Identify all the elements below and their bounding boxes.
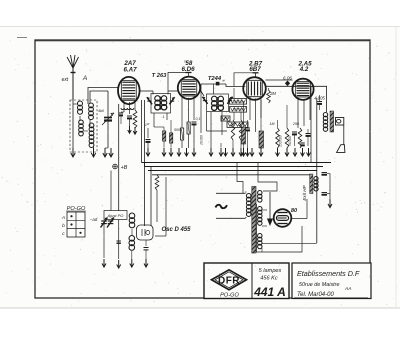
svg-text:b: b	[62, 223, 65, 229]
wire coil links	[79, 116, 81, 121]
svg-text:50rue de Maistre: 50rue de Maistre	[299, 282, 339, 288]
wire bottom secondary	[262, 242, 317, 244]
wire aux into ajust	[110, 171, 112, 211]
wire B+ vertical rail	[118, 104, 120, 211]
resistor box R14	[242, 127, 246, 144]
capacitor C5 under U2	[192, 121, 197, 123]
band switch PO-GO table	[67, 212, 85, 237]
trimmer T1 osc	[101, 220, 107, 222]
filament loops under U1	[121, 108, 134, 110]
wire bus L1	[142, 162, 332, 164]
svg-text:6B7: 6B7	[249, 66, 261, 73]
ground C10	[145, 259, 147, 266]
ground trimmer T1	[103, 259, 105, 266]
wire right rail	[316, 98, 318, 243]
capacitor C13 blob	[216, 82, 220, 86]
resistor R5 box 50000	[230, 107, 247, 113]
resistor R9 diagonal 2M	[267, 90, 271, 103]
antenna coil L1b	[79, 120, 84, 125]
wire primary feed	[237, 163, 243, 194]
mains wires	[216, 192, 246, 194]
exit transformer core	[310, 174, 313, 194]
wire bus L2	[145, 166, 324, 168]
antenna	[72, 68, 74, 100]
input coil shield box (dashed)	[70, 100, 97, 152]
wire U2 plate to T244	[200, 90, 204, 96]
capacitor C2 under U1	[127, 115, 132, 117]
wire bus L3	[148, 170, 317, 172]
svg-text:3ᵂ: 3ᵂ	[223, 117, 228, 121]
svg-text:.1: .1	[162, 115, 165, 119]
resistor R8 vertical	[239, 120, 242, 140]
svg-text:250: 250	[292, 122, 299, 126]
resistor R12 box	[170, 133, 173, 143]
arrow return R1	[134, 127, 136, 133]
svg-text:T 263: T 263	[152, 73, 168, 79]
tube U4 2A5/42	[292, 79, 313, 100]
svg-text:Osc D 455: Osc D 455	[161, 227, 191, 233]
resistor R1 under U1	[133, 110, 137, 128]
svg-text:500: 500	[174, 128, 180, 132]
wire exit right	[327, 174, 330, 200]
svg-text:PO-GO: PO-GO	[220, 292, 239, 298]
svg-text:4b0: 4b0	[98, 109, 104, 113]
wire osc feedback	[155, 235, 166, 237]
wire bus L4	[152, 174, 312, 176]
grounds under U4 cluster	[243, 148, 245, 155]
wire rectifier output	[291, 218, 307, 220]
resistor R4 box 25000	[230, 99, 247, 105]
capacitor C11 exit top	[322, 172, 328, 174]
wire T244 stub	[213, 84, 215, 94]
capacitor C8	[292, 131, 297, 133]
svg-text:50.000: 50.000	[288, 136, 292, 146]
svg-text:1ᵂ: 1ᵂ	[145, 123, 150, 127]
wire screen feeders	[141, 100, 143, 163]
exit transformer winding	[314, 177, 318, 181]
wire U1 cathode drops	[123, 101, 125, 112]
wire U3 to output bus	[266, 85, 327, 87]
U4 drops	[297, 98, 299, 128]
wire plate bus U2	[201, 83, 226, 85]
osc coil L3a	[129, 213, 135, 219]
osc coil L3b	[129, 236, 135, 242]
arrow return C2	[129, 126, 131, 132]
U2 grid cap wire	[168, 73, 189, 95]
capacitor C3 left of U1	[121, 111, 124, 113]
wire T263 secondary down	[153, 113, 155, 127]
grounds under T263/U2	[163, 148, 165, 155]
wire T263 to U2	[168, 90, 178, 92]
rectifier box outline	[257, 204, 303, 252]
svg-text:Etablissements D.F: Etablissements D.F	[297, 269, 360, 278]
tuned coil L2b	[89, 123, 94, 128]
U2 cathode drops	[181, 97, 183, 129]
tuned coil L2a	[89, 103, 94, 108]
power transformer primary	[246, 194, 251, 199]
svg-text:456 Kc: 456 Kc	[260, 276, 278, 282]
resistor R11 horizontal box	[227, 122, 248, 127]
Ajust PO box	[104, 211, 127, 220]
ground exit	[329, 200, 331, 207]
wire U4 plate to output transformer	[326, 86, 328, 112]
svg-text:−ad: −ad	[90, 217, 98, 222]
stray mark top left	[17, 37, 27, 39]
svg-text:2M: 2M	[269, 91, 276, 96]
resistor R3 under U2	[187, 122, 190, 134]
resistor R2 under U2	[181, 128, 184, 140]
svg-text:AA: AA	[344, 286, 351, 292]
svg-text:0,1: 0,1	[196, 117, 201, 121]
tube U2 58/6D6	[178, 77, 200, 99]
wires rectifier to exit	[262, 209, 267, 211]
arrow down feed	[269, 192, 271, 222]
capacitor C10 osc	[145, 240, 147, 246]
wire U3 plate top short	[266, 79, 293, 81]
wire grid of U1	[88, 88, 118, 105]
svg-text:T244: T244	[208, 76, 222, 82]
wire secondary top to bus	[258, 163, 277, 192]
resistor box R15	[259, 131, 264, 148]
wire primary ends	[245, 191, 247, 193]
border frame	[35, 40, 370, 298]
output transformer TR-OUT	[323, 113, 327, 117]
wire antenna to coil	[72, 100, 74, 148]
ground antenna coil	[72, 148, 74, 156]
grounds mid cluster	[225, 148, 227, 155]
trimmer T2 osc	[108, 220, 114, 222]
svg-text:441 A: 441 A	[253, 285, 286, 299]
wire B+ rail into ajust	[118, 220, 120, 260]
tube U3 2B7/6B7	[243, 77, 266, 100]
wire T244 left drop	[206, 112, 208, 131]
svg-text:DFR: DFR	[218, 275, 240, 286]
svg-text:6.06: 6.06	[283, 75, 292, 80]
svg-text:A: A	[82, 75, 87, 82]
svg-text:1M: 1M	[270, 122, 275, 126]
resistor R7 vertical	[231, 120, 234, 140]
wire U2 plate drop	[200, 84, 202, 133]
svg-text:20.000: 20.000	[200, 135, 204, 146]
title block address cell	[292, 263, 371, 299]
mains plug squiggle	[216, 205, 227, 208]
capacitor C4 bypass	[147, 128, 149, 138]
svg-text:50000: 50000	[233, 108, 243, 112]
ground tuning cap	[104, 148, 106, 156]
speaker HP	[336, 118, 344, 126]
capacitor C6	[245, 127, 250, 129]
wire U3 grid to T244 top	[234, 73, 253, 87]
capacitor C8b	[306, 133, 311, 135]
svg-text:5 lampes: 5 lampes	[259, 268, 282, 274]
wire coil top to tuning cap	[90, 91, 108, 103]
svg-text:+B: +B	[121, 165, 128, 171]
svg-text:25000: 25000	[233, 100, 243, 104]
IF transformer T244	[207, 94, 229, 112]
wire cluster mid	[233, 88, 235, 99]
tuning capacitor CV1	[107, 91, 109, 117]
ground coil L2b	[93, 148, 95, 156]
title block logo cell	[204, 263, 289, 299]
resistor R13 box	[163, 131, 166, 141]
logo DFR diamond	[212, 270, 247, 290]
ground aux	[110, 148, 112, 156]
capacitor mark on rail	[117, 240, 121, 242]
resistors under U3/U4 cluster	[276, 128, 280, 148]
svg-text:250.000: 250.000	[279, 135, 283, 148]
oscillator padder box	[137, 225, 154, 240]
tube U1 2A7/6A7	[118, 77, 140, 104]
wire T244 drops	[210, 112, 212, 148]
grounds under T244	[210, 148, 212, 155]
ground C4	[147, 148, 149, 155]
ground rail	[118, 260, 120, 267]
capacitor C8c	[300, 142, 305, 144]
wire bus left drops	[144, 163, 146, 227]
antenna coil L1a	[78, 101, 83, 106]
node +B	[113, 164, 118, 169]
power transformer secondary HT top	[258, 191, 262, 195]
svg-text:4.2: 4.2	[299, 66, 309, 73]
svg-text:Ajust PO: Ajust PO	[107, 213, 124, 218]
U3 drops	[249, 97, 251, 120]
svg-text:ext: ext	[62, 77, 69, 83]
power transformer secondary HT mid	[258, 207, 262, 211]
resistor R6 box small	[221, 116, 230, 121]
svg-text:A: A	[61, 215, 65, 221]
svg-text:4.005: 4.005	[314, 96, 325, 101]
wire screen drop U4	[310, 86, 312, 162]
tube U5 rectifier 80	[274, 209, 292, 227]
IF transformer T263	[151, 94, 171, 114]
power transformer core	[252, 187, 256, 254]
svg-text:80: 80	[291, 208, 298, 214]
ground osc coil	[131, 259, 133, 266]
svg-text:Exit HP: Exit HP	[302, 184, 307, 200]
capacitor C12 exit bottom	[322, 192, 328, 194]
U3 grid cap	[255, 73, 257, 77]
svg-text:Tel. Mar04-00: Tel. Mar04-00	[297, 292, 334, 298]
power transformer secondary fil	[258, 234, 262, 238]
resistor R10 on bus drop	[155, 175, 159, 190]
wire U1 plate to T263	[140, 90, 153, 92]
